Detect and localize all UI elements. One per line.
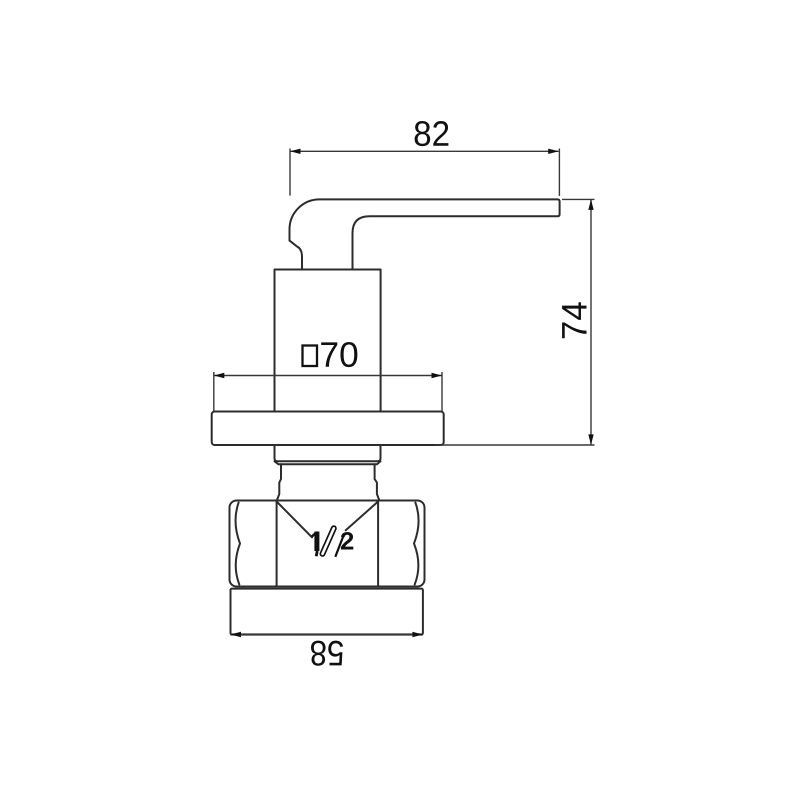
dim text 74 (rotated) (562, 302, 586, 338)
dim 82 left extension line (289, 149, 291, 196)
stem left edge (277, 464, 281, 500)
hex right curved profile (414, 503, 419, 585)
dim 70 right extension line (441, 372, 443, 411)
dim 70 left arrow (214, 373, 225, 378)
dim 70 left extension line (213, 372, 215, 411)
dim 74 top arrow (588, 199, 593, 210)
wall flange (212, 412, 444, 446)
dim 74 bottom extension line (435, 444, 595, 446)
hex inner right line (377, 501, 379, 587)
dim 58 right arrow (412, 632, 423, 637)
thread label digit 1 (312, 532, 318, 557)
dim 74 bottom arrow (588, 434, 593, 445)
hex left curved profile (236, 503, 240, 585)
thread label thin slash (335, 535, 344, 557)
dim text 82 (415, 121, 449, 146)
base plate (231, 589, 423, 635)
thread label slash outlined (323, 528, 334, 554)
hex valve body (230, 501, 425, 587)
dim 82 left arrow (290, 149, 301, 154)
stem right edge (375, 464, 380, 500)
dim 70 right arrow (432, 373, 443, 378)
dim 74 top extension line (562, 198, 595, 200)
valve body square escutcheon (275, 270, 381, 412)
dim 70 line (214, 375, 442, 377)
hex inner left line (276, 501, 278, 587)
dim 58 line (231, 633, 423, 635)
dim text 58 (rotated 180) (311, 641, 343, 666)
bonnet collar (275, 445, 381, 461)
thread label digit 2 (341, 532, 353, 549)
dim text 70 (321, 342, 357, 367)
dim 58 left arrow (231, 632, 242, 637)
dim 74 line (590, 199, 592, 445)
bonnet bottom edge (275, 461, 381, 464)
lever handle outline (290, 199, 560, 269)
port V left line (277, 502, 312, 538)
port V right line (346, 502, 378, 531)
dim 82 right arrow (548, 149, 559, 154)
dim 82 line (290, 150, 559, 152)
dim 82 right extension line (558, 149, 560, 196)
square symbol of dim 70 (303, 346, 318, 367)
